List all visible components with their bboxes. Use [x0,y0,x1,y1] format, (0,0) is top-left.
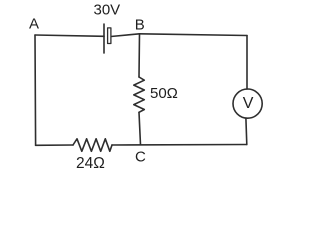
voltmeter V circle [233,89,262,118]
svg-text:50Ω: 50Ω [150,85,178,102]
wire right side down to voltmeter [246,36,248,90]
svg-text:30V: 30V [94,1,121,18]
wire left vertical [34,35,37,145]
svg-text:C: C [135,148,146,165]
svg-text:V: V [243,95,254,112]
wire voltmeter to bottom-right corner [245,118,248,144]
resistor R2 24ohm zigzag [73,139,112,152]
wire 50ohm resistor down to node C [139,112,141,144]
battery B1 plates [103,24,105,53]
wire bottom right segment through node C [112,144,247,147]
svg-text:B: B [135,16,145,33]
wire A to battery [35,35,104,36]
resistor R1 50ohm zigzag [134,77,145,112]
svg-text:A: A [29,16,39,33]
wire bottom left segment [36,144,73,146]
wire B to top-right corner [140,34,248,36]
wire battery to node B [111,34,140,37]
svg-text:24Ω: 24Ω [76,155,105,172]
wire B down to 50ohm resistor [138,34,141,77]
